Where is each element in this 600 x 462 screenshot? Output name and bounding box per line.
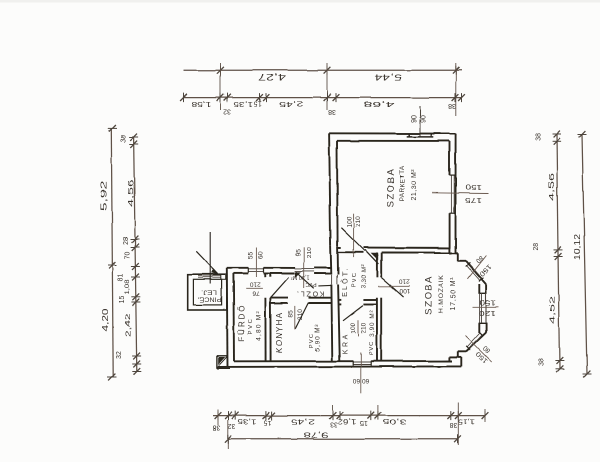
svg-text:1,08: 1,08 <box>124 279 131 294</box>
cellar stair arrow <box>196 233 218 284</box>
svg-text:15: 15 <box>119 296 126 304</box>
svg-text:PVC: PVC <box>248 318 254 335</box>
label FURDO PVC 4,80 m2 <box>238 304 263 341</box>
bottom dimension row2: 9,78 <box>224 431 461 444</box>
svg-text:SZOBA: SZOBA <box>424 275 435 315</box>
svg-text:15: 15 <box>360 419 368 426</box>
wall PARKETTA / ELOT+MOZAIK <box>337 247 452 252</box>
svg-text:1,35: 1,35 <box>237 418 256 425</box>
entrance door 95/210 with swing + label <box>295 247 315 288</box>
svg-text:32: 32 <box>223 108 231 115</box>
svg-text:21,30 M²: 21,30 M² <box>411 169 418 201</box>
wall ELOT|MOZAIK + door 100/210 with swing <box>377 253 411 362</box>
bay top corner pillar <box>449 248 466 261</box>
svg-text:KRA: KRA <box>342 332 349 354</box>
svg-text:100: 100 <box>350 322 357 333</box>
svg-text:2,42: 2,42 <box>125 313 132 336</box>
window label 150/175 <box>432 183 488 203</box>
top dimension line row1: 4,27 + 5,44 <box>184 66 462 82</box>
svg-text:4,56: 4,56 <box>547 173 556 201</box>
building bottom wall <box>217 361 461 367</box>
svg-text:38: 38 <box>450 421 458 428</box>
svg-text:SZOBA: SZOBA <box>386 168 397 208</box>
label KONYHA PVC 5,90 m2 <box>275 312 321 354</box>
PINCE LEJ. cellar entrance box <box>188 274 227 310</box>
svg-text:1,15: 1,15 <box>458 418 475 425</box>
dimension extension lines (top) <box>221 63 456 116</box>
svg-text:60: 60 <box>362 377 370 384</box>
svg-text:210: 210 <box>297 309 304 320</box>
svg-text:ELŐT.: ELŐT. <box>340 266 349 296</box>
svg-text:38: 38 <box>120 135 127 143</box>
label KRA PVC 3,90 m2 <box>342 310 376 356</box>
label KOZL PVC 1,30 m2 <box>291 274 324 297</box>
svg-text:38: 38 <box>328 108 336 115</box>
svg-text:4,52: 4,52 <box>547 296 556 324</box>
svg-text:32: 32 <box>116 352 123 360</box>
svg-text:4,56: 4,56 <box>126 179 135 207</box>
svg-text:90: 90 <box>420 115 427 123</box>
svg-text:PVC: PVC <box>352 272 358 288</box>
wall ELOT|KRA + door 100/210 <box>338 300 377 337</box>
svg-text:3,05: 3,05 <box>382 418 406 425</box>
wall FURDO | KOZL+KONYHA <box>265 274 270 362</box>
svg-text:210: 210 <box>249 280 260 287</box>
bay bottom corner pillar <box>449 351 466 366</box>
left section top wall <box>227 268 331 274</box>
svg-text:5,92: 5,92 <box>100 180 109 211</box>
svg-text:210: 210 <box>361 322 368 333</box>
svg-text:90: 90 <box>411 115 418 123</box>
svg-text:FÜRDŐ: FÜRDŐ <box>238 304 247 341</box>
svg-text:4,20: 4,20 <box>101 308 110 332</box>
svg-text:76: 76 <box>252 289 260 296</box>
left dimension outer: 5,92 + 4,20 <box>100 125 117 380</box>
svg-text:PVC: PVC <box>369 341 375 355</box>
svg-text:4,80 M²: 4,80 M² <box>255 310 262 341</box>
svg-text:120: 120 <box>479 309 496 316</box>
svg-text:100: 100 <box>347 216 354 227</box>
svg-text:3,30 M²: 3,30 M² <box>361 265 368 289</box>
svg-text:2,45: 2,45 <box>278 100 303 107</box>
svg-text:15: 15 <box>264 419 272 426</box>
bay window 80/150 (upper angled) <box>466 254 493 284</box>
svg-text:1,30 M²: 1,30 M² <box>291 274 310 280</box>
svg-text:60: 60 <box>352 377 360 384</box>
label ELOT PVC 3,30 m2 <box>340 265 367 297</box>
bay window 80/150 (lower angled) <box>465 332 492 364</box>
svg-text:2,45: 2,45 <box>291 418 315 425</box>
svg-text:210: 210 <box>306 247 313 258</box>
svg-text:KÖZL.: KÖZL. <box>296 290 324 298</box>
svg-text:H.MOZAIK: H.MOZAIK <box>438 274 445 313</box>
window 150/175 in PARKETTA right wall <box>450 175 456 213</box>
svg-text:55: 55 <box>247 252 254 260</box>
svg-text:KONYHA: KONYHA <box>275 312 284 354</box>
room SZOBA PARKETTA outer walls <box>329 133 456 253</box>
chimney leader + labels 90/90 <box>411 106 427 137</box>
door 100/210 ELOT to PARKETTA with swing <box>341 213 365 257</box>
door 76/210 FURDO with swing + label <box>246 277 289 297</box>
svg-text:1,62: 1,62 <box>337 418 356 425</box>
window 60/60 KRA with label <box>352 353 371 394</box>
svg-text:4,27: 4,27 <box>257 72 286 81</box>
svg-text:38: 38 <box>535 133 542 141</box>
bottom dimension row1: 38 32 1,35 15 2,45 33 1,62 15 3,05 38 1,15 <box>213 411 489 431</box>
svg-text:95: 95 <box>295 249 302 257</box>
svg-text:85: 85 <box>288 310 295 318</box>
svg-text:60: 60 <box>257 252 264 260</box>
chimney 90/90 in top wall <box>407 133 434 137</box>
svg-text:LEJ.: LEJ. <box>201 289 217 295</box>
svg-text:9,78: 9,78 <box>304 431 328 440</box>
door KOZL to ELOT (opening + leaf) <box>318 275 337 286</box>
svg-text:70: 70 <box>124 252 131 260</box>
svg-text:28: 28 <box>533 243 540 251</box>
wall KOZL|ELOT and KONYHA|KRA vertical <box>331 246 340 361</box>
bay window 150/120 (middle) with label <box>473 284 500 333</box>
right dimension outer: 10,12 <box>573 131 591 378</box>
left dimension inner: 38 4,56 28 70 81 1,08 15 2,42 32 <box>116 134 141 375</box>
svg-text:38: 38 <box>538 358 545 366</box>
svg-text:5,90 M²: 5,90 M² <box>315 324 322 352</box>
svg-text:150: 150 <box>465 183 482 190</box>
svg-text:38: 38 <box>448 102 456 109</box>
svg-text:210: 210 <box>398 277 409 284</box>
svg-text:PINCE.: PINCE. <box>197 296 221 302</box>
svg-text:17,50 M²: 17,50 M² <box>450 276 457 310</box>
svg-text:32: 32 <box>228 422 236 429</box>
black triangle marker at ELOT corner <box>365 250 378 264</box>
dimension extension lines (bottom) <box>218 403 485 449</box>
svg-text:3,90 M²: 3,90 M² <box>369 310 376 337</box>
label SZOBA H.MOZAIK 17,50 m2 <box>424 274 458 315</box>
svg-text:10,12: 10,12 <box>573 233 582 260</box>
svg-text:38: 38 <box>213 424 221 431</box>
wall KOZL|KONYHA + door 85/210 <box>270 298 331 330</box>
top dimension line row2: 1,58 32 1,35 15 2,45 38 4,68 38 <box>180 93 465 115</box>
svg-text:4,68: 4,68 <box>364 100 395 109</box>
svg-text:15: 15 <box>254 100 262 107</box>
building left wall <box>227 268 234 367</box>
svg-text:28: 28 <box>123 237 130 245</box>
svg-text:1,58: 1,58 <box>191 100 211 107</box>
svg-text:210: 210 <box>355 215 362 226</box>
svg-text:33: 33 <box>330 421 338 428</box>
svg-text:5,44: 5,44 <box>374 72 402 81</box>
svg-text:150: 150 <box>479 299 496 306</box>
svg-text:175: 175 <box>465 196 482 203</box>
right dimension inner: 38 4,56 28 4,52 38 <box>533 131 564 373</box>
svg-text:PVC: PVC <box>305 281 316 287</box>
window 55/60 FURDO with label <box>247 248 264 277</box>
svg-text:PARKETTA: PARKETTA <box>399 165 406 201</box>
label SZOBA PARKETTA 21,30 m2 <box>386 165 418 207</box>
svg-text:1,35: 1,35 <box>234 100 253 107</box>
corner marker bottom-left <box>217 356 230 369</box>
svg-text:100: 100 <box>399 287 410 294</box>
